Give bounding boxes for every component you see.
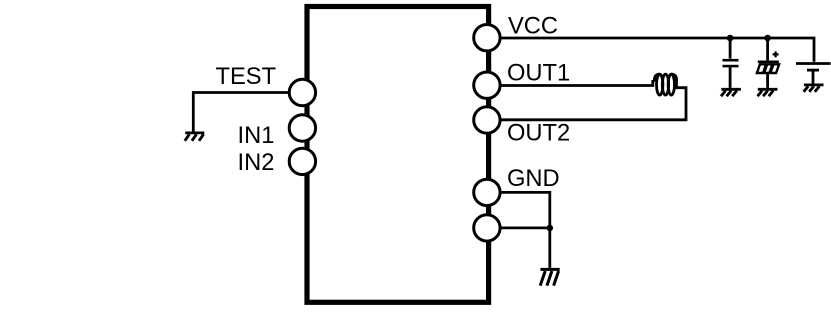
pin VCC [474, 25, 500, 51]
ground (C1) [721, 89, 741, 96]
capacitor C1 [723, 38, 739, 88]
ground (B1) [804, 85, 824, 92]
battery B1 [796, 64, 831, 84]
pin TEST [289, 79, 315, 105]
pin IN2 [289, 148, 315, 174]
polarity + label C2 [773, 51, 779, 57]
wire GND pin upper [487, 192, 550, 268]
svg-text:VCC: VCC [508, 14, 558, 40]
svg-text:OUT1: OUT1 [507, 60, 570, 86]
label OUT2 [507, 121, 570, 147]
svg-text:OUT2: OUT2 [507, 121, 570, 147]
wire VCC rail [487, 38, 814, 62]
ground (GND) [540, 269, 560, 285]
pin GND lower [474, 215, 500, 241]
svg-text:IN2: IN2 [238, 150, 275, 176]
label IN1 [238, 123, 275, 149]
IC body U1 [307, 7, 489, 303]
junction dot VCC/C1 [727, 35, 734, 42]
label OUT1 [507, 60, 570, 86]
pin IN1 [289, 115, 315, 141]
capacitor C2 electrolytic [757, 38, 779, 88]
wire TEST to ground [193, 93, 302, 132]
label GND [507, 166, 560, 192]
label IN2 [238, 150, 275, 176]
svg-text:GND: GND [507, 166, 560, 192]
inductor L1 [654, 74, 676, 95]
wire L1 to OUT2 [487, 81, 686, 119]
junction dot VCC/C2 [764, 35, 771, 42]
label VCC [508, 14, 558, 40]
junction dot GND [547, 225, 554, 232]
pin GND upper [474, 179, 500, 205]
svg-text:TEST: TEST [216, 64, 277, 90]
ground (C2) [758, 89, 778, 96]
wire GND pin lower [487, 226, 550, 229]
pin OUT2 [474, 107, 500, 133]
svg-text:IN1: IN1 [238, 123, 275, 149]
ground (TEST) [185, 133, 205, 141]
label TEST [216, 64, 277, 90]
pin OUT1 [474, 72, 500, 98]
wire OUT1 to L1 [487, 81, 655, 85]
